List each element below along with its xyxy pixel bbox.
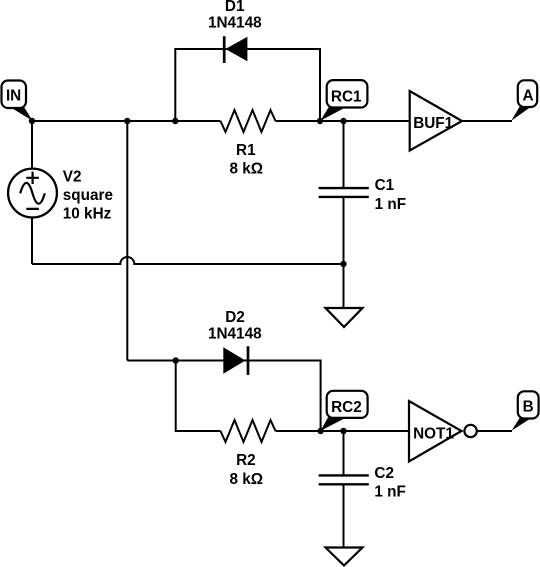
svg-text:1N4148: 1N4148: [208, 15, 262, 32]
svg-text:RC2: RC2: [331, 399, 362, 416]
svg-text:D1: D1: [225, 0, 245, 15]
svg-text:IN: IN: [6, 88, 21, 105]
svg-text:RC1: RC1: [331, 89, 362, 106]
svg-text:B: B: [523, 399, 534, 416]
svg-text:V2: V2: [63, 168, 82, 185]
svg-text:C1: C1: [375, 177, 395, 194]
svg-text:NOT1: NOT1: [413, 426, 454, 443]
svg-text:A: A: [522, 88, 533, 105]
svg-text:1 nF: 1 nF: [375, 196, 406, 213]
svg-text:1 nF: 1 nF: [374, 483, 405, 500]
svg-text:8 kΩ: 8 kΩ: [230, 471, 264, 488]
svg-text:1N4148: 1N4148: [208, 325, 262, 342]
svg-text:D2: D2: [225, 309, 245, 326]
svg-text:C2: C2: [374, 465, 394, 482]
svg-text:R2: R2: [236, 452, 256, 469]
svg-text:10 kHz: 10 kHz: [63, 205, 112, 222]
svg-text:8 kΩ: 8 kΩ: [230, 161, 264, 178]
svg-text:BUF1: BUF1: [413, 115, 453, 132]
svg-text:square: square: [63, 187, 113, 204]
svg-text:R1: R1: [236, 142, 256, 159]
